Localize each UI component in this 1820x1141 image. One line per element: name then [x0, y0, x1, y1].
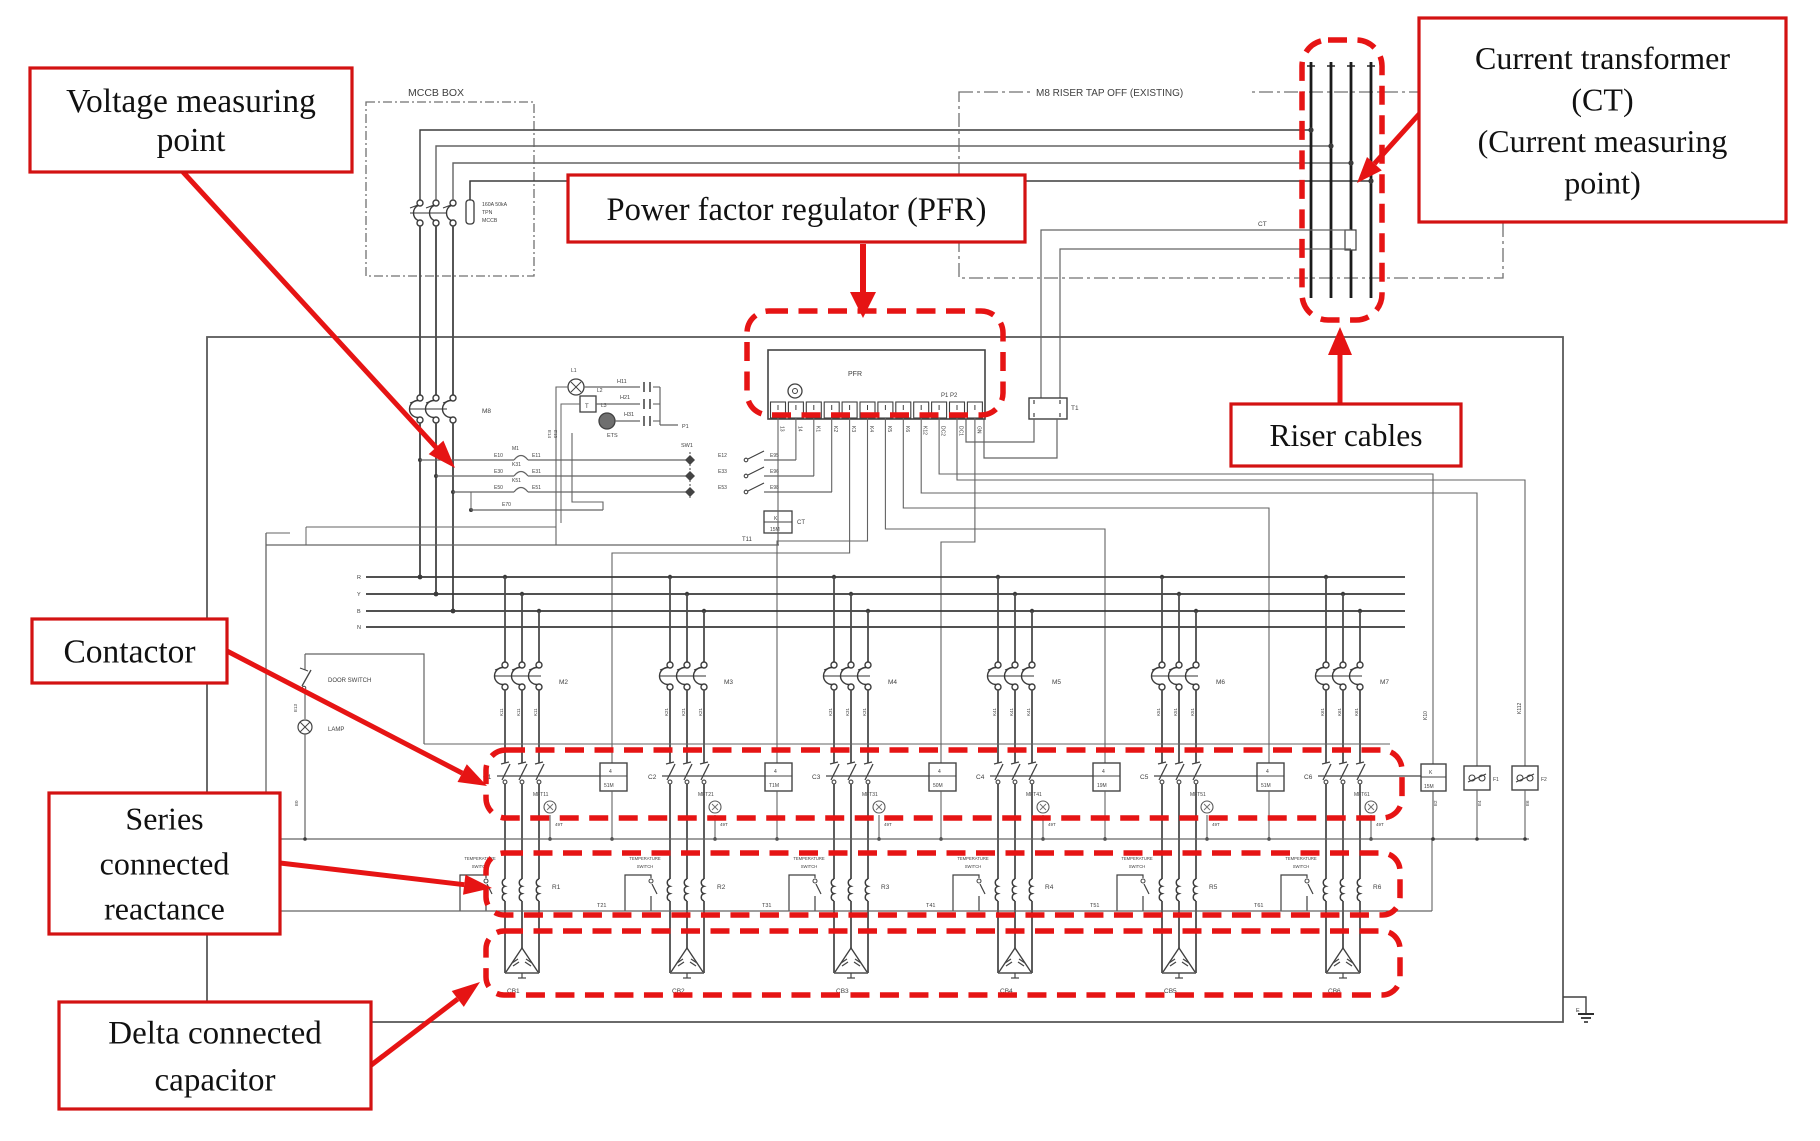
arrow CT: [1374, 112, 1421, 164]
M8 pole 2: [433, 395, 439, 401]
coil MFT61: [1365, 801, 1377, 813]
control relay box right: [1421, 764, 1446, 791]
svg-text:DC2: DC2: [940, 426, 946, 436]
door switch: [304, 654, 306, 670]
meter L2: [580, 396, 596, 412]
svg-text:R: R: [357, 575, 361, 581]
svg-text:E6: E6: [1525, 800, 1530, 806]
transformer T1: [1029, 398, 1067, 419]
svg-text:K3: K3: [850, 426, 856, 432]
svg-text:MFT61: MFT61: [1354, 792, 1370, 798]
lamp: [298, 720, 312, 734]
coil MFT51: [1201, 801, 1213, 813]
svg-text:13: 13: [779, 426, 785, 432]
branch 3 feeders from bus: [832, 575, 836, 579]
label box: delta connected capacitor: [59, 1002, 371, 1109]
highlight reactor row dashed: [486, 853, 1400, 915]
branch 5 feeders from bus: [1160, 575, 1164, 579]
svg-text:E13: E13: [293, 703, 298, 712]
svg-text:M8 RISER TAP OFF (EXISTING): M8 RISER TAP OFF (EXISTING): [1036, 88, 1183, 99]
M8 pole 1: [417, 395, 423, 401]
contactor M6: [1159, 662, 1165, 668]
svg-text:15M: 15M: [1424, 784, 1434, 790]
svg-text:M8: M8: [482, 408, 491, 415]
reactor R2 coils: [669, 784, 671, 879]
wires to left risers of cluster: [556, 387, 568, 545]
label box: voltage measuring point: [30, 68, 352, 172]
overload relay box branch 2: [765, 763, 792, 791]
arrow PFR: [860, 244, 866, 292]
MCCB pole 3: [450, 200, 456, 206]
branch 4 feeders from bus: [996, 575, 1000, 579]
svg-text:49T: 49T: [1376, 822, 1384, 827]
svg-text:T21: T21: [597, 903, 606, 909]
label box: contactor: [32, 619, 227, 683]
MCCB pole 2: [433, 200, 439, 206]
svg-text:L1: L1: [571, 368, 577, 374]
PFR block U1: [768, 350, 985, 419]
svg-text:K11: K11: [499, 708, 504, 716]
svg-text:T31: T31: [762, 903, 771, 909]
reactor R6 coils: [1325, 784, 1327, 879]
coil MFT31: [873, 801, 885, 813]
PFR indicator: [788, 384, 802, 398]
svg-text:R3: R3: [881, 884, 890, 891]
svg-text:Power factor regulator (PFR): Power factor regulator (PFR): [607, 192, 987, 228]
svg-text:T1: T1: [1071, 405, 1079, 412]
svg-text:51M: 51M: [604, 783, 614, 789]
svg-text:K11: K11: [533, 708, 538, 716]
reactor R4 coils: [997, 784, 999, 879]
svg-text:R4: R4: [1045, 884, 1054, 891]
control tap rows E10/E30/E50/E70: [418, 458, 422, 462]
svg-text:E12: E12: [718, 453, 727, 459]
M8 tie bar: [410, 408, 447, 410]
svg-text:49T: 49T: [555, 822, 563, 827]
label box: series connected reactance: [49, 793, 280, 934]
svg-text:Voltage measuring: Voltage measuring: [66, 83, 316, 120]
svg-text:P1 P2: P1 P2: [941, 393, 958, 399]
coil MFT21: [709, 801, 721, 813]
reactor R5 coils: [1161, 784, 1163, 879]
svg-text:49T: 49T: [1048, 822, 1056, 827]
svg-text:F1: F1: [1493, 777, 1499, 783]
svg-text:M4: M4: [888, 679, 897, 686]
earth ground: [1563, 997, 1586, 1014]
overload relay box branch 5: [1257, 763, 1284, 791]
T1 to PFR P1 P2 wires: [966, 419, 1034, 442]
fuse F1: [1464, 766, 1490, 790]
delta capacitor CB2: [669, 901, 671, 973]
svg-text:DC1: DC1: [958, 426, 964, 436]
riser cables (4 vertical feeders): [1310, 62, 1313, 298]
svg-text:E53: E53: [718, 485, 727, 491]
svg-text:R6: R6: [1373, 884, 1382, 891]
row E70: [469, 508, 473, 512]
svg-text:E15: E15: [553, 430, 558, 439]
contactor M4: [831, 662, 837, 668]
delta capacitor CB3: [833, 901, 835, 973]
svg-text:K21: K21: [681, 707, 686, 716]
highlight PFR dashed: [747, 311, 1003, 415]
svg-text:T1M: T1M: [769, 783, 779, 789]
svg-text:K12: K12: [922, 426, 928, 435]
MCCB BOX dashed enclosure: [366, 102, 534, 276]
svg-text:T11: T11: [742, 537, 753, 543]
svg-text:K61: K61: [1354, 707, 1359, 716]
svg-text:E: E: [1576, 1008, 1580, 1014]
delta capacitor CB1: [504, 901, 506, 973]
svg-text:MFT41: MFT41: [1026, 792, 1042, 798]
svg-text:K21: K21: [698, 707, 703, 716]
svg-text:C2: C2: [648, 774, 657, 781]
M8 pole 3: [450, 395, 456, 401]
branch 4 wires to switch row: [997, 690, 999, 763]
svg-text:(Current measuring: (Current measuring: [1478, 123, 1728, 159]
arrow voltage measuring: [183, 172, 436, 447]
svg-text:B: B: [357, 609, 361, 615]
svg-text:point): point): [1564, 164, 1640, 200]
svg-text:K11: K11: [516, 708, 521, 716]
svg-text:Contactor: Contactor: [63, 634, 195, 671]
svg-text:L2: L2: [597, 388, 603, 394]
branch 1 wires to switch row: [504, 690, 506, 763]
svg-text:K6: K6: [904, 426, 910, 432]
svg-text:MFT21: MFT21: [698, 792, 714, 798]
svg-text:reactance: reactance: [104, 891, 225, 927]
svg-text:Y: Y: [357, 592, 361, 598]
M8 RISER TAP OFF dashed box: [959, 92, 1503, 278]
svg-text:K31: K31: [845, 707, 850, 716]
contact pairs: [643, 382, 645, 392]
svg-text:C3: C3: [812, 774, 821, 781]
svg-text:E30: E30: [494, 469, 503, 475]
svg-text:49T: 49T: [884, 822, 892, 827]
overload relay box branch 1: [600, 763, 627, 791]
svg-text:M3: M3: [724, 679, 733, 686]
svg-text:N: N: [357, 625, 361, 631]
branch 2 wires to switch row: [669, 690, 671, 763]
svg-text:Series: Series: [125, 801, 203, 837]
overload relay box branch 4: [1093, 763, 1120, 791]
svg-text:K61: K61: [1320, 707, 1325, 716]
svg-text:K31: K31: [862, 707, 867, 716]
contactor M7: [1323, 662, 1329, 668]
lamp L3: [599, 413, 615, 429]
svg-text:M1: M1: [512, 446, 519, 452]
svg-text:ETS: ETS: [607, 433, 618, 439]
svg-text:SWITCH: SWITCH: [1293, 864, 1310, 869]
PFR terminal strip: [771, 402, 786, 418]
svg-text:K4: K4: [868, 426, 874, 432]
right column drops to return wire: [1432, 791, 1434, 839]
overload relay box branch 3: [929, 763, 956, 791]
svg-text:E50: E50: [494, 485, 503, 491]
svg-text:M6: M6: [1216, 679, 1225, 686]
svg-text:M5: M5: [1052, 679, 1061, 686]
contactor M3: [667, 662, 673, 668]
svg-text:160A 50kA: 160A 50kA: [482, 202, 508, 208]
svg-text:E51: E51: [532, 485, 541, 491]
svg-text:T: T: [585, 404, 589, 410]
svg-text:R1: R1: [552, 884, 561, 891]
svg-text:E33: E33: [718, 469, 727, 475]
MCCB pole 1: [417, 200, 423, 206]
svg-text:4: 4: [938, 769, 941, 775]
svg-text:K112: K112: [1517, 702, 1523, 714]
svg-text:K51: K51: [1190, 707, 1195, 716]
svg-text:K31: K31: [828, 707, 833, 716]
svg-text:C6: C6: [1304, 774, 1313, 781]
branch 1 feeders from bus: [503, 575, 507, 579]
coil MFT41: [1037, 801, 1049, 813]
svg-text:19M: 19M: [1097, 783, 1107, 789]
svg-text:4: 4: [1266, 769, 1269, 775]
svg-text:MFT11: MFT11: [533, 792, 549, 798]
svg-text:K51: K51: [1173, 707, 1178, 716]
svg-text:E4: E4: [1477, 800, 1482, 806]
svg-text:K21: K21: [664, 707, 669, 716]
svg-text:E0: E0: [294, 800, 299, 806]
svg-text:TEMPERATURE: TEMPERATURE: [629, 856, 661, 861]
MCCB tie bar: [410, 212, 447, 214]
outer panel enclosure: [207, 337, 1563, 1022]
fuse F2: [1512, 766, 1538, 790]
svg-text:14: 14: [796, 426, 802, 432]
svg-text:TEMPERATURE: TEMPERATURE: [793, 856, 825, 861]
test block T11: [764, 511, 792, 533]
svg-text:H21: H21: [620, 395, 630, 401]
svg-text:SWITCH: SWITCH: [1129, 864, 1146, 869]
branch 3 wires to switch row: [833, 690, 835, 763]
svg-text:TEMPERATURE: TEMPERATURE: [1285, 856, 1317, 861]
svg-text:PFR: PFR: [848, 371, 862, 378]
pilot lamp L1: [568, 379, 584, 395]
contactor M2: [502, 662, 508, 668]
wire phase Y from MCCB to riser: [436, 146, 1331, 200]
highlight riser cables dashed: [1302, 40, 1382, 320]
svg-text:K51: K51: [1156, 707, 1161, 716]
svg-text:M2: M2: [559, 679, 568, 686]
svg-text:SWITCH: SWITCH: [801, 864, 818, 869]
wire phase R from MCCB to riser: [420, 130, 1311, 200]
svg-text:C5: C5: [1140, 774, 1149, 781]
temp switch loop wire: [266, 910, 1432, 912]
svg-text:E2: E2: [1433, 800, 1438, 806]
svg-text:E70: E70: [502, 502, 511, 508]
branch 5 wires to switch row: [1161, 690, 1163, 763]
svg-text:Riser cables: Riser cables: [1269, 418, 1422, 453]
coil MFT11: [544, 801, 556, 813]
svg-text:T51: T51: [1090, 903, 1099, 909]
svg-text:T61: T61: [1254, 903, 1263, 909]
delta capacitor CB4: [997, 901, 999, 973]
branch 6 feeders from bus: [1324, 575, 1328, 579]
delta capacitor CB6: [1325, 901, 1327, 973]
branch 2 feeders from bus: [668, 575, 672, 579]
svg-text:Delta connected: Delta connected: [108, 1016, 322, 1052]
svg-text:K51: K51: [512, 478, 521, 484]
svg-text:point: point: [157, 122, 227, 159]
highlight contactor row dashed: [486, 750, 1402, 818]
svg-text:4: 4: [774, 769, 777, 775]
arrow contactor: [227, 651, 462, 773]
svg-text:49T: 49T: [1212, 822, 1220, 827]
contactor M5: [995, 662, 1001, 668]
PFR terminal drop wires: [777, 418, 779, 545]
junction dots risers: [1308, 127, 1313, 132]
CT secondary wires to T1: [1041, 230, 1351, 398]
svg-text:LAMP: LAMP: [328, 727, 344, 733]
svg-text:4: 4: [1102, 769, 1105, 775]
svg-text:C4: C4: [976, 774, 985, 781]
label box: riser cables: [1231, 404, 1461, 466]
svg-text:K31: K31: [512, 462, 521, 468]
long control wire: [266, 544, 779, 546]
svg-text:K2: K2: [832, 426, 838, 432]
svg-text:MCCB BOX: MCCB BOX: [408, 87, 464, 99]
svg-text:CT: CT: [797, 520, 805, 526]
svg-text:K41: K41: [1009, 707, 1014, 716]
arrow riser cables: [1338, 355, 1343, 404]
vertical feeders below MCCB: [419, 226, 421, 395]
svg-text:connected: connected: [100, 846, 230, 882]
label box: PFR: [568, 175, 1025, 242]
svg-text:E10: E10: [494, 453, 503, 459]
arrow delta capacitor: [370, 999, 458, 1066]
svg-text:E14: E14: [547, 430, 552, 439]
reactor R3 coils: [833, 784, 835, 879]
svg-text:K10: K10: [1423, 711, 1429, 720]
svg-text:K41: K41: [1026, 707, 1031, 716]
svg-text:P1: P1: [682, 424, 689, 430]
svg-text:R2: R2: [717, 884, 726, 891]
svg-text:51M: 51M: [1261, 783, 1271, 789]
svg-text:H31: H31: [624, 412, 634, 418]
reactor R1 coils: [504, 784, 506, 879]
delta capacitor CB5: [1161, 901, 1163, 973]
fuse 160A: [466, 200, 474, 224]
svg-text:MFT51: MFT51: [1190, 792, 1206, 798]
wire phase B from MCCB to riser: [453, 163, 1351, 200]
branch 6 wires to switch row: [1325, 690, 1327, 763]
CT on riser: [1345, 230, 1356, 250]
svg-text:SW1: SW1: [681, 443, 693, 449]
svg-text:Current transformer: Current transformer: [1475, 40, 1730, 76]
arrow reactance: [280, 863, 464, 885]
svg-text:4: 4: [609, 769, 612, 775]
svg-text:MCCB: MCCB: [482, 218, 498, 224]
svg-text:49T: 49T: [720, 822, 728, 827]
svg-text:T41: T41: [926, 903, 935, 909]
svg-text:CT: CT: [1258, 221, 1267, 228]
svg-text:F2: F2: [1541, 777, 1547, 783]
staircase to branch coils: [612, 418, 850, 763]
svg-text:DOOR SWITCH: DOOR SWITCH: [328, 678, 371, 684]
label box: current transformer: [1419, 18, 1786, 222]
svg-text:SWITCH: SWITCH: [637, 864, 654, 869]
svg-text:E31: E31: [532, 469, 541, 475]
svg-text:R5: R5: [1209, 884, 1218, 891]
svg-text:K1: K1: [814, 426, 820, 432]
feeders M8 down to bus: [419, 423, 421, 577]
svg-text:K5: K5: [886, 426, 892, 432]
cluster wiring: [584, 386, 640, 388]
svg-text:TEMPERATURE: TEMPERATURE: [957, 856, 989, 861]
svg-text:M7: M7: [1380, 679, 1389, 686]
svg-text:H11: H11: [617, 379, 627, 385]
wire N from fuse to riser: [470, 181, 1371, 200]
svg-text:MFT31: MFT31: [862, 792, 878, 798]
svg-text:GN: GN: [975, 426, 981, 434]
svg-text:K61: K61: [1337, 707, 1342, 716]
svg-text:K41: K41: [992, 707, 997, 716]
coil return wire: [266, 838, 1529, 840]
svg-text:50M: 50M: [933, 783, 943, 789]
svg-text:capacitor: capacitor: [155, 1063, 276, 1099]
highlight capacitor row dashed: [486, 931, 1400, 995]
svg-text:TPN: TPN: [482, 210, 493, 216]
svg-text:(CT): (CT): [1571, 82, 1633, 118]
door switch wire: [305, 654, 424, 744]
svg-text:TEMPERATURE: TEMPERATURE: [1121, 856, 1153, 861]
svg-text:E11: E11: [532, 453, 541, 459]
bus bars R Y B N: [366, 576, 1405, 578]
svg-text:SWITCH: SWITCH: [965, 864, 982, 869]
